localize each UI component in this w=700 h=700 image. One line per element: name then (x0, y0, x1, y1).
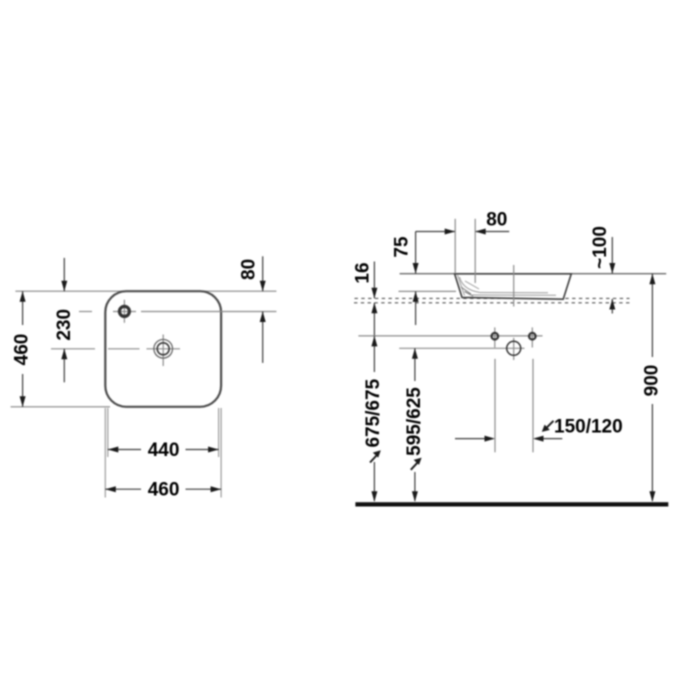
extension line rim top level (15, 290, 276, 292)
mounting holes centerline (358, 335, 542, 337)
svg-text:~100: ~100 (590, 226, 611, 269)
inner bottom reference line (399, 290, 457, 292)
svg-text:80: 80 (239, 259, 260, 280)
svg-text:460: 460 (12, 334, 33, 366)
svg-text:460: 460 (148, 480, 180, 501)
drain axis (513, 265, 515, 307)
drain (154, 340, 173, 359)
svg-text:80: 80 (486, 209, 507, 230)
svg-text:16: 16 (352, 262, 373, 283)
dimension 80 (left view) (262, 256, 264, 363)
rim top line (400, 273, 667, 275)
floor (355, 502, 668, 506)
svg-text:675/675: 675/675 (363, 378, 384, 447)
dimension 675/675 (373, 336, 375, 501)
washbasin outline (rounded square) (105, 291, 221, 407)
dimension 75 (415, 232, 417, 326)
dimension 16 (373, 262, 375, 336)
dimension 460 bottom (105, 488, 221, 490)
svg-text:230: 230 (54, 309, 75, 341)
svg-text:75: 75 (392, 236, 413, 258)
dimension ~100 (611, 237, 613, 314)
dimension 460 left (22, 291, 24, 407)
dimension 80 top (416, 231, 510, 233)
faucet hole 1 (494, 327, 496, 347)
dimension 440 (108, 449, 219, 451)
basin interior sketch (458, 275, 557, 296)
faucet hole 2 (531, 327, 533, 347)
faucet hole (119, 306, 129, 316)
drain centerline (51, 335, 180, 367)
dimension 900 (651, 274, 653, 501)
faucet hole centerline (79, 300, 276, 323)
svg-text:595/625: 595/625 (404, 387, 425, 456)
faucet extension lines (454, 219, 456, 274)
extension line bottom left (11, 406, 110, 408)
dashed countertop lines (354, 298, 630, 302)
dimension 230 (63, 258, 65, 382)
extension lines below basin (105, 408, 221, 498)
svg-text:150/120: 150/120 (554, 416, 623, 437)
svg-text:440: 440 (148, 440, 180, 461)
dimension 150/120 (455, 438, 562, 440)
dimension 595/625 (414, 348, 416, 501)
svg-text:900: 900 (642, 365, 663, 397)
extension verticals for 150/120 (495, 359, 533, 453)
drain hole (513, 338, 515, 360)
drain hole centerline (399, 347, 524, 349)
washbasin profile (455, 274, 572, 299)
